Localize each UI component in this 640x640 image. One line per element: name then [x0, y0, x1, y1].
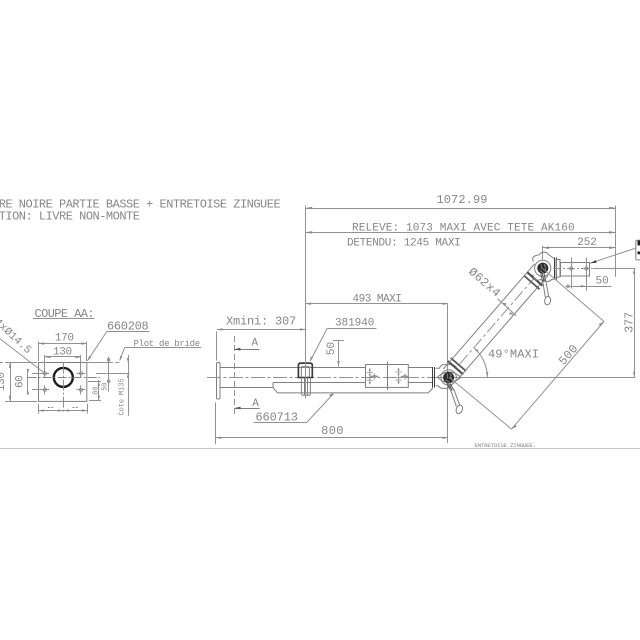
hole ticks right tube: [570, 258, 588, 292]
leader O14.5: [0, 339, 44, 373]
tube: [561, 263, 590, 277]
outer circle: [441, 370, 456, 385]
Xmini dim line: [217, 329, 306, 331]
leader 660208: [87, 331, 107, 360]
collar stud below: [301, 377, 310, 395]
svg-text:130: 130: [0, 372, 8, 391]
lever neck: [447, 383, 454, 391]
plate holes: [40, 369, 85, 395]
dark knob: [443, 372, 454, 383]
dimension 1072.99 line: [306, 208, 616, 210]
leader O62x4: [498, 299, 517, 316]
tube centerline right: [553, 268, 593, 270]
cote Mi35 text: [119, 379, 127, 416]
section A top: [234, 336, 236, 414]
leader 660713: [306, 394, 333, 423]
angle baseline: [437, 377, 635, 379]
svg-text:50: 50: [596, 276, 609, 288]
dimension 377: [634, 268, 636, 377]
493 dim line: [306, 303, 448, 305]
cote Mi35 dim: [128, 355, 130, 416]
dimension 130 left rotated: [0, 372, 8, 391]
svg-text:50: 50: [326, 342, 338, 355]
dimension 50 rotated stud: [102, 383, 110, 391]
svg-text:Xmini: 307: Xmini: 307: [226, 314, 296, 328]
clamp band: [448, 361, 463, 374]
500 dim line diamond edge: [512, 322, 605, 430]
extension line right: [615, 206, 617, 277]
svg-text:80: 80: [93, 386, 101, 394]
dimension 80 rotated: [93, 386, 101, 394]
diamond outline: [449, 269, 604, 430]
cut label box: [636, 240, 640, 260]
svg-text:170: 170: [55, 333, 74, 345]
tube top edge: [220, 367, 366, 369]
plate center hole ring: [54, 368, 73, 387]
end plate: [432, 367, 434, 388]
dimension RELEVE line: [306, 232, 616, 234]
extension line left (collar axis): [305, 206, 307, 363]
dash line plate top extension: [87, 362, 121, 364]
svg-text:A: A: [252, 398, 259, 410]
svg-text:49°MAXI: 49°MAXI: [488, 347, 539, 361]
svg-text:Cote Mi35: Cote Mi35: [119, 379, 127, 416]
500 text rotated: [556, 342, 581, 368]
dimension 252 line: [543, 247, 616, 249]
collar 381940: [298, 363, 312, 377]
gusset plate: [273, 383, 433, 393]
svg-text:60: 60: [14, 376, 26, 389]
leader 381940: [310, 328, 327, 361]
leader Plot de bride: [120, 347, 125, 360]
49 deg arc: [474, 348, 487, 378]
plate outline: [39, 363, 87, 402]
upper clamp band: [527, 272, 542, 285]
blocks with holes: [366, 365, 409, 388]
dimension equal bottom: [38, 410, 87, 412]
label 4xO14.5 rotated: [0, 317, 33, 357]
lever shaft: [451, 390, 457, 406]
svg-text:DETENDU: 1245 MAXI: DETENDU: 1245 MAXI: [347, 238, 460, 250]
svg-text:381940: 381940: [335, 317, 374, 329]
lever neck up: [541, 273, 546, 281]
leader to cut box: [590, 248, 636, 263]
plate centerlines: [28, 377, 100, 379]
clamp body outline: [436, 365, 457, 369]
dimension 50 collar: [326, 342, 338, 355]
svg-text:800: 800: [321, 424, 344, 438]
svg-text:A: A: [252, 338, 259, 350]
lower joint clamp: [436, 358, 466, 415]
vertical ref line joint axis: [447, 304, 449, 443]
lever shaft up: [543, 281, 546, 297]
svg-text:ENTRETOISE ZINGUEE.: ENTRETOISE ZINGUEE.: [475, 442, 536, 449]
plot de bride stud: [108, 357, 110, 392]
section A bottom: [235, 408, 260, 410]
flange left end: [217, 363, 221, 400]
right tube of upper joint: [555, 258, 590, 280]
extension line 252 left: [542, 246, 544, 260]
step: [557, 260, 561, 278]
faint frame line: [0, 448, 640, 450]
tube bottom edge left: [220, 387, 273, 389]
O62x4 label rotated: [465, 265, 503, 301]
svg-text:50: 50: [102, 383, 110, 391]
svg-text:377: 377: [622, 312, 636, 333]
bracket plate: [554, 258, 556, 280]
tube centerline: [207, 377, 449, 379]
upper joint: [533, 252, 556, 305]
svg-text:ATION: LIVRE NON-MONTE: ATION: LIVRE NON-MONTE: [0, 210, 140, 224]
dimension 60 rotated: [14, 376, 26, 389]
svg-text:1072.99: 1072.99: [436, 193, 487, 207]
arm tube: [443, 264, 548, 381]
eye outline: [437, 372, 461, 383]
